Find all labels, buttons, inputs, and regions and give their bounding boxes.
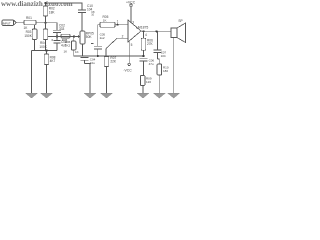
resistor R09 (vertical to gnd) xyxy=(140,76,151,94)
svg-text:2: 2 xyxy=(122,35,124,39)
wire output xyxy=(141,30,171,32)
svg-text:-VCC: -VCC xyxy=(123,68,132,72)
node +input dot xyxy=(116,24,118,26)
ground (under C04) xyxy=(84,93,96,98)
capacitor C02 333 xyxy=(53,23,65,36)
svg-text:18K: 18K xyxy=(49,10,56,14)
node input junction dot xyxy=(44,22,46,24)
capacitor C04 10u (electrolytic below rail) xyxy=(81,57,96,93)
capacitor C10 (on x=82 drop) xyxy=(78,4,93,13)
svg-text:10u: 10u xyxy=(90,61,95,65)
resistor R04 100K (vertical) xyxy=(39,23,47,51)
svg-text:1K: 1K xyxy=(75,50,79,54)
resistor R06 1K (vertical below mid-rail dot) xyxy=(64,37,79,57)
node output dot 2 xyxy=(155,30,157,32)
wire pot bottom to long rail xyxy=(82,44,84,56)
ground (left) xyxy=(26,51,38,99)
ground (under R10) xyxy=(153,93,165,98)
wire top rail xyxy=(46,3,83,10)
svg-text:5: 5 xyxy=(131,43,133,47)
node long rail dot at C05 xyxy=(97,55,99,57)
svg-text:333: 333 xyxy=(59,27,65,31)
resistor R01 1K (horizontal) xyxy=(24,16,37,30)
wire R01 to C02 corner xyxy=(36,23,57,30)
speaker SP xyxy=(171,19,186,93)
potentiometer RP05 50K body xyxy=(80,31,94,44)
svg-text:104: 104 xyxy=(161,54,166,58)
ground (under speaker) xyxy=(168,93,180,98)
svg-text:SP: SP xyxy=(178,19,182,23)
wire input to R01 xyxy=(16,22,24,24)
wire C10 to pot top xyxy=(81,12,83,31)
node mid rail dot at C02 xyxy=(56,35,58,37)
resistor R03 150K (vertical) xyxy=(24,25,36,51)
svg-text:180: 180 xyxy=(163,69,168,73)
svg-text:100K: 100K xyxy=(39,45,47,49)
svg-text:INPUT: INPUT xyxy=(3,21,11,25)
node +VCC terminal xyxy=(126,1,136,22)
resistor R06z 27K (vertical from output) xyxy=(141,31,153,56)
ground (under R09) xyxy=(137,93,149,98)
capacitor C06 47u (electrolytic) xyxy=(139,58,154,75)
op-amp U1 LM1875 xyxy=(128,20,148,47)
capacitor C03 4u7 (electrolytic) xyxy=(52,37,67,51)
wire mid rail xyxy=(48,36,74,38)
node rail dot xyxy=(45,49,47,51)
node long rail end dot xyxy=(142,55,144,57)
node INPUT terminal xyxy=(2,20,16,25)
wire long bottom rail xyxy=(74,55,144,57)
wire -input diagonal xyxy=(106,38,128,48)
potentiometer RP05 50K wiper arrow xyxy=(74,35,80,38)
resistor R07 22K (vertical, feedback to gnd) xyxy=(104,49,117,94)
svg-text:150K: 150K xyxy=(24,34,32,38)
node output dot 1 xyxy=(142,30,144,32)
node mid rail dot xyxy=(73,35,75,37)
ground (under R07) xyxy=(101,93,113,98)
ground (under R08) xyxy=(41,93,53,98)
svg-text:1: 1 xyxy=(117,20,119,24)
resistor R05 4K7 (horizontal on mid rail) xyxy=(61,34,70,42)
svg-text:1K: 1K xyxy=(103,19,107,23)
node top rail dot xyxy=(44,2,46,4)
svg-text:2u2: 2u2 xyxy=(100,36,105,40)
svg-text:120: 120 xyxy=(146,80,151,84)
svg-text:2K2: 2K2 xyxy=(65,43,71,47)
resistor R10 (vertical to gnd) xyxy=(157,64,169,93)
svg-text:22K: 22K xyxy=(110,59,117,63)
wire lower-left rail xyxy=(32,50,58,52)
svg-text:27K: 27K xyxy=(147,42,154,46)
svg-text:4K7: 4K7 xyxy=(50,59,56,63)
watermark www.dianzizhizuo.com xyxy=(1,0,73,8)
svg-text:R01: R01 xyxy=(26,16,32,20)
svg-text:3: 3 xyxy=(132,20,134,24)
resistor R08 4K7 (vertical below rail dot) xyxy=(44,51,55,94)
capacitor C05 2u2 (electrolytic, feedback) xyxy=(91,25,105,56)
svg-text:1K: 1K xyxy=(64,50,68,54)
svg-text:50K: 50K xyxy=(86,35,93,39)
svg-text:LM1875: LM1875 xyxy=(136,25,148,29)
resistor R05t 1K (horizontal into +input) xyxy=(98,15,128,27)
capacitor C07 104 (from output) xyxy=(153,31,166,64)
svg-text:47u: 47u xyxy=(149,62,154,66)
svg-text:www.dianzizh: www.dianzizh xyxy=(1,0,43,8)
svg-text:4: 4 xyxy=(145,33,147,37)
resistor R02 18K (vertical to top rail) xyxy=(43,3,55,23)
node -VCC terminal xyxy=(123,41,132,72)
